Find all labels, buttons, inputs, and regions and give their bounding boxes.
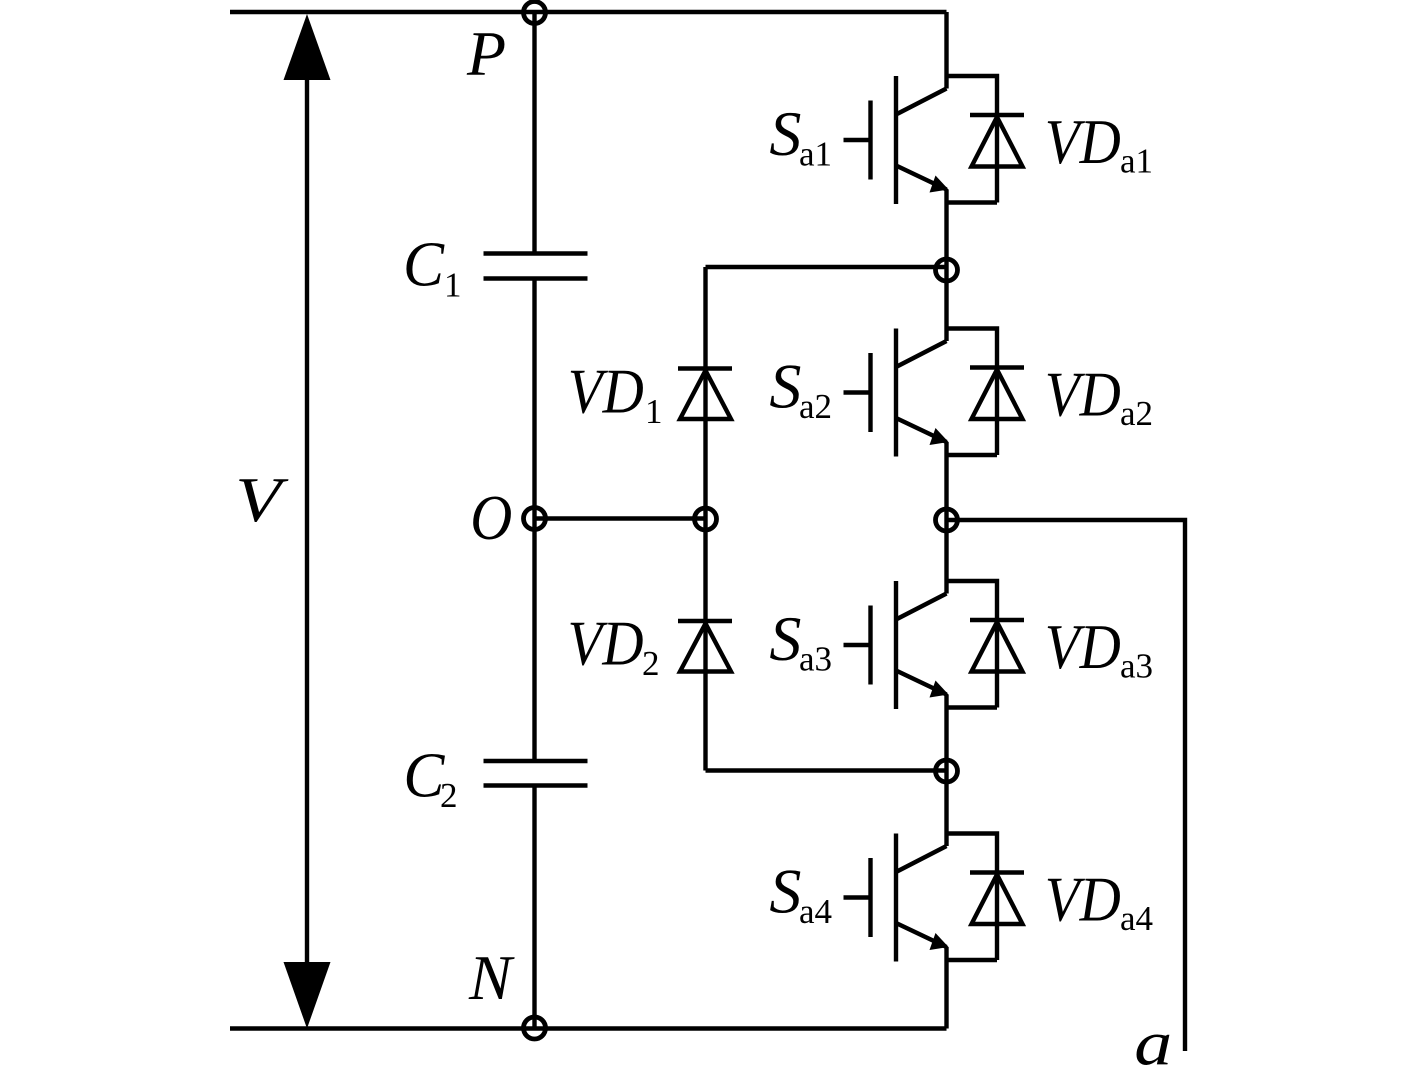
- svg-text:VD: VD: [1045, 359, 1121, 430]
- diode VD_a2: [947, 329, 1025, 456]
- wire rail seg2: [944, 190, 948, 342]
- svg-text:VD: VD: [1045, 864, 1121, 935]
- capacitor C2: [484, 761, 588, 786]
- svg-text:1: 1: [444, 266, 462, 305]
- svg-text:P: P: [466, 18, 506, 89]
- wire clamp vertical: [703, 267, 707, 771]
- wire bottom bus N rail: [230, 1026, 947, 1030]
- wire dc bus lower: [532, 786, 536, 1029]
- svg-text:V: V: [235, 464, 289, 535]
- svg-text:2: 2: [440, 776, 458, 815]
- wire clamp top: [706, 265, 947, 269]
- svg-text:C: C: [403, 229, 445, 300]
- diode VD_a4: [947, 834, 1025, 961]
- V arrow head down: [284, 962, 331, 1029]
- capacitor C1: [484, 254, 588, 279]
- diode VD2: [678, 621, 732, 672]
- svg-text:VD: VD: [1045, 611, 1121, 682]
- diode VD_a3: [947, 581, 1025, 708]
- svg-text:a4: a4: [799, 892, 832, 931]
- node N: [524, 1017, 546, 1039]
- node O: [524, 508, 546, 530]
- svg-text:VD: VD: [568, 355, 644, 426]
- svg-text:S: S: [769, 856, 801, 927]
- diode VD_a1: [947, 76, 1025, 203]
- svg-text:S: S: [769, 98, 801, 169]
- node clamp bottom junction: [936, 760, 958, 782]
- svg-text:VD: VD: [568, 608, 644, 679]
- svg-text:VD: VD: [1045, 106, 1121, 177]
- wire dc bus middle: [532, 279, 536, 762]
- svg-text:a3: a3: [799, 640, 832, 679]
- svg-text:a1: a1: [799, 135, 832, 174]
- wire rail seg5: [944, 947, 948, 1029]
- V arrow head up: [284, 14, 331, 80]
- wire rail seg1: [944, 12, 948, 89]
- wire rail seg4: [944, 695, 948, 847]
- svg-text:a: a: [1134, 1008, 1172, 1079]
- diode VD1: [678, 369, 732, 420]
- wire O row: [535, 516, 706, 520]
- wire clamp bottom: [706, 768, 948, 772]
- node phase mid: [936, 509, 958, 531]
- transistor S_a3: [844, 581, 949, 709]
- node clamp mid: [695, 508, 717, 530]
- wire output a: [947, 520, 1186, 1051]
- wire dc bus upper: [532, 12, 536, 254]
- svg-text:a1: a1: [1120, 142, 1153, 181]
- node clamp top junction: [936, 259, 958, 281]
- wire rail seg3: [944, 442, 948, 594]
- svg-text:a2: a2: [1120, 394, 1153, 433]
- svg-text:N: N: [468, 942, 515, 1013]
- wire top bus P rail: [230, 10, 947, 14]
- svg-text:1: 1: [645, 392, 663, 431]
- V arrow shaft: [305, 76, 309, 966]
- transistor S_a2: [844, 329, 949, 457]
- svg-text:O: O: [470, 482, 512, 553]
- svg-text:S: S: [769, 603, 801, 674]
- svg-text:a3: a3: [1120, 647, 1153, 686]
- transistor S_a1: [844, 76, 949, 204]
- svg-text:S: S: [769, 351, 801, 422]
- node P: [524, 2, 546, 24]
- svg-text:a4: a4: [1120, 899, 1153, 938]
- svg-text:a2: a2: [799, 387, 832, 426]
- transistor S_a4: [844, 834, 949, 962]
- svg-text:2: 2: [642, 644, 660, 683]
